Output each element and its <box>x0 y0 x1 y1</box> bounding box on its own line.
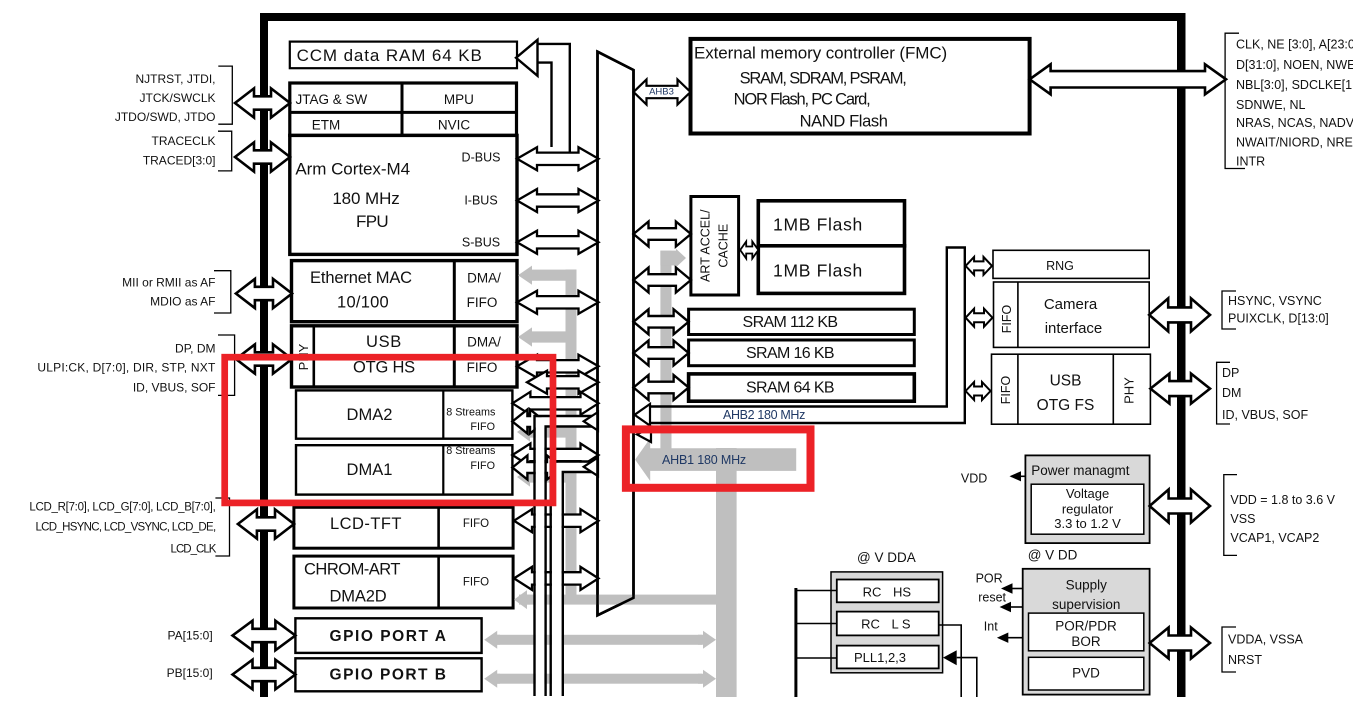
wire clock left rail <box>794 588 797 697</box>
svg-text:reset: reset <box>978 591 1006 605</box>
arrow USB OTG FS pins <box>1150 374 1210 404</box>
svg-text:CACHE: CACHE <box>717 224 731 268</box>
wire into PLL <box>957 658 977 697</box>
block POR/PDR BOR <box>1029 613 1144 651</box>
arrow VDD supply pins <box>1150 490 1210 523</box>
wire DMA2 peripheral bus channel down <box>536 417 598 696</box>
wire DMA1 peripheral bus channel down <box>552 463 598 696</box>
svg-text:JTAG & SW: JTAG & SW <box>296 92 368 107</box>
arrow DMA2 memory port stub <box>512 410 545 434</box>
svg-text:CLK, NE [3:0], A[23:0]: CLK, NE [3:0], A[23:0] <box>1236 38 1353 52</box>
svg-text:External memory controller (FM: External memory controller (FMC) <box>694 43 947 62</box>
svg-text:MII or RMII as AF: MII or RMII as AF <box>122 275 215 289</box>
wire VDD into power management <box>1011 475 1025 477</box>
wire AHB2 bus channel <box>648 248 965 424</box>
block JTAG & SW / MPU / ETM / NVIC <box>290 83 517 135</box>
svg-text:PHY: PHY <box>1122 377 1137 404</box>
svg-text:VDD = 1.8 to 3.6 V: VDD = 1.8 to 3.6 V <box>1230 493 1335 507</box>
grey bus bar GPIO PORT A row <box>496 635 702 645</box>
arrow LCD pins <box>238 509 294 538</box>
wire CCM data RAM to D-BUS <box>516 40 538 76</box>
svg-text:Power managmt: Power managmt <box>1031 463 1130 478</box>
svg-text:AHB2 180 MHz: AHB2 180 MHz <box>723 408 805 422</box>
arrow bus matrix to SRAM 64 KB <box>634 375 689 400</box>
svg-text:S-BUS: S-BUS <box>462 235 500 249</box>
svg-text:LCD_R[7:0], LCD_G[7:0], LCD_B[: LCD_R[7:0], LCD_G[7:0], LCD_B[7:0], <box>29 502 215 514</box>
grey bus arrow into Ethernet DMA/FIFO <box>518 266 577 285</box>
svg-text:PB[15:0]: PB[15:0] <box>167 666 213 680</box>
arrow GPIO PORT B pins <box>233 660 296 690</box>
block CCM data RAM 64 KB <box>290 42 517 69</box>
svg-text:USB: USB <box>1050 372 1082 389</box>
svg-text:PLL1,2,3: PLL1,2,3 <box>854 650 906 665</box>
wire AHB1 channel arrowhead <box>637 427 651 442</box>
svg-text:JTCK/SWCLK: JTCK/SWCLK <box>139 91 215 105</box>
block GPIO PORT A <box>295 618 481 653</box>
arrow Ethernet to bus matrix <box>517 291 599 314</box>
svg-text:PVD: PVD <box>1072 666 1100 681</box>
block SRAM 112 KB <box>689 309 915 334</box>
svg-text:10/100: 10/100 <box>337 293 389 311</box>
svg-text:3.3 to 1.2 V: 3.3 to 1.2 V <box>1054 516 1121 531</box>
arrow bus matrix to ART accelerator upper <box>634 222 691 247</box>
arrow JTAG pins <box>235 88 290 117</box>
svg-text:OTG HS: OTG HS <box>353 359 415 377</box>
block ART ACCEL / CACHE <box>691 197 739 296</box>
svg-text:NOR Flash, PC Card,: NOR Flash, PC Card, <box>734 91 870 109</box>
svg-text:VDD: VDD <box>961 471 987 485</box>
arrow CHROM-ART FIFO to bus matrix <box>514 567 599 590</box>
bus matrix <box>598 52 634 616</box>
block 1MB Flash upper <box>758 201 904 246</box>
svg-text:MPU: MPU <box>444 92 474 107</box>
block USB OTG HS with PHY and DMA/FIFO <box>292 326 518 387</box>
svg-text:VDDA, VSSA: VDDA, VSSA <box>1228 633 1304 647</box>
svg-text:CHROM-ART: CHROM-ART <box>304 561 400 579</box>
arrow Camera interface pins <box>1149 298 1210 331</box>
grey bus arrow into USB OTG HS DMA/FIFO <box>518 327 577 346</box>
arrow D-BUS to bus matrix <box>517 147 599 170</box>
svg-text:regulator: regulator <box>1062 502 1114 517</box>
frame right border wire <box>1177 13 1186 697</box>
frame top border wire <box>260 13 1185 21</box>
arrow LCD-TFT FIFO to bus matrix <box>514 509 599 532</box>
svg-text:8 Streams: 8 Streams <box>446 445 496 457</box>
svg-text:NRAS, NCAS, NADV: NRAS, NCAS, NADV <box>1236 116 1353 130</box>
svg-text:Voltage: Voltage <box>1066 486 1109 501</box>
svg-text:DMA/: DMA/ <box>467 271 501 286</box>
svg-text:@ V DD: @ V DD <box>1028 548 1078 563</box>
block PVD <box>1029 657 1144 690</box>
svg-text:ETM: ETM <box>312 117 341 132</box>
arrow AHB2 to RNG <box>966 257 992 275</box>
arrow USB ULPI pins <box>236 344 292 373</box>
block DMA2 8 Streams FIFO <box>296 390 512 438</box>
arrow USB HS to bus matrix lower <box>527 371 599 394</box>
svg-text:FIFO: FIFO <box>467 360 498 375</box>
svg-text:DMA1: DMA1 <box>346 461 392 479</box>
svg-text:FIFO: FIFO <box>467 295 498 310</box>
svg-text:D[31:0], NOEN, NWE: D[31:0], NOEN, NWE <box>1236 58 1353 72</box>
svg-text:FIFO: FIFO <box>463 518 489 530</box>
svg-text:1MB Flash: 1MB Flash <box>773 261 863 281</box>
svg-text:1MB Flash: 1MB Flash <box>773 214 863 234</box>
svg-text:FIFO: FIFO <box>470 421 495 433</box>
grey AHB1 trunk down <box>716 448 737 697</box>
svg-text:LCD_HSYNC, LCD_VSYNC, LCD_DE,: LCD_HSYNC, LCD_VSYNC, LCD_DE, <box>35 522 216 534</box>
svg-text:RC: RC <box>863 585 882 600</box>
svg-text:interface: interface <box>1045 320 1103 337</box>
grey bus bar CHROM-ART DMA2D row <box>519 595 716 605</box>
svg-text:DMA2D: DMA2D <box>330 588 387 606</box>
grey bus trunk from Ethernet/USB DMA down middle <box>566 270 577 600</box>
block SRAM 16 KB <box>689 340 915 366</box>
svg-text:@ V DDA: @ V DDA <box>857 550 916 565</box>
arrow TRACE pins <box>235 142 290 171</box>
svg-text:DP, DM: DP, DM <box>175 341 215 355</box>
wire Int output <box>1006 637 1023 639</box>
arrow I-BUS to bus matrix <box>517 189 599 212</box>
block Arm Cortex-M4 core <box>290 135 517 254</box>
block CHROM-ART DMA2D with FIFO <box>294 556 513 608</box>
svg-text:D-BUS: D-BUS <box>462 151 501 165</box>
svg-text:DMA/: DMA/ <box>467 335 501 350</box>
block Camera interface with FIFO <box>994 282 1150 347</box>
svg-text:RC: RC <box>861 617 880 632</box>
svg-text:SRAM 16 KB: SRAM 16 KB <box>746 345 834 362</box>
svg-text:PA[15:0]: PA[15:0] <box>168 629 213 643</box>
wire RC LS output down <box>939 625 962 697</box>
block DMA1 8 Streams FIFO <box>296 445 512 494</box>
svg-text:FIFO: FIFO <box>999 375 1013 404</box>
svg-text:DP: DP <box>1222 366 1239 380</box>
svg-text:Supply: Supply <box>1066 578 1108 593</box>
grey AHB1 bus arrow <box>635 438 796 481</box>
arrow DMA1 to bus matrix <box>512 444 598 467</box>
block LCD-TFT with FIFO <box>294 507 513 548</box>
svg-text:DMA2: DMA2 <box>346 406 392 424</box>
svg-text:NBL[3:0], SDCLKE[1:0]: NBL[3:0], SDCLKE[1:0] <box>1236 78 1353 92</box>
bus matrix outline restroke <box>598 52 634 616</box>
arrow bus matrix to ART accelerator lower <box>634 268 691 293</box>
svg-text:FIFO: FIFO <box>463 577 489 589</box>
svg-text:ID, VBUS, SOF: ID, VBUS, SOF <box>133 381 216 395</box>
arrow bus matrix to SRAM 16 KB <box>634 341 689 366</box>
svg-text:VCAP1, VCAP2: VCAP1, VCAP2 <box>1230 531 1319 545</box>
svg-text:Int: Int <box>984 620 998 634</box>
svg-text:TRACECLK: TRACECLK <box>151 134 215 148</box>
svg-text:L S: L S <box>891 617 910 632</box>
svg-text:Camera: Camera <box>1044 296 1098 313</box>
svg-text:USB: USB <box>366 333 402 351</box>
svg-text:NWAIT/NIORD, NREG: NWAIT/NIORD, NREG <box>1236 136 1353 150</box>
arrow VDDA supply pins <box>1150 628 1210 659</box>
block 1MB Flash lower <box>758 246 904 294</box>
arrow DMA2 to bus matrix <box>512 392 598 415</box>
svg-text:JTDO/SWD, JTDO: JTDO/SWD, JTDO <box>115 110 216 124</box>
svg-text:FIFO: FIFO <box>1000 304 1014 333</box>
grey bus bar GPIO PORT B row <box>496 674 702 684</box>
svg-text:OTG FS: OTG FS <box>1037 397 1095 414</box>
svg-text:FIFO: FIFO <box>470 460 495 472</box>
block GPIO PORT B <box>295 658 481 691</box>
svg-text:INTR: INTR <box>1236 154 1265 168</box>
arrow S-BUS to bus matrix <box>517 231 599 254</box>
svg-text:SRAM, SDRAM, PSRAM,: SRAM, SDRAM, PSRAM, <box>740 69 907 87</box>
svg-text:POR: POR <box>976 572 1003 586</box>
svg-text:SRAM 64 KB: SRAM 64 KB <box>746 380 834 397</box>
block Supply supervision <box>1023 569 1150 695</box>
svg-text:POR/PDR: POR/PDR <box>1055 619 1117 634</box>
svg-text:LCD-TFT: LCD-TFT <box>330 515 402 533</box>
svg-text:HS: HS <box>893 585 911 600</box>
svg-text:8 Streams: 8 Streams <box>446 407 496 419</box>
wire POR output <box>1010 588 1023 590</box>
svg-text:NAND Flash: NAND Flash <box>800 113 888 131</box>
arrow USB HS to bus matrix upper <box>517 355 599 378</box>
svg-text:ART ACCEL/: ART ACCEL/ <box>699 209 713 282</box>
svg-text:SDNWE, NL: SDNWE, NL <box>1236 98 1306 112</box>
svg-text:SRAM 112 KB: SRAM 112 KB <box>743 314 838 331</box>
svg-text:VSS: VSS <box>1230 512 1255 526</box>
svg-text:Ethernet MAC: Ethernet MAC <box>310 269 412 287</box>
svg-text:PUIXCLK, D[13:0]: PUIXCLK, D[13:0] <box>1228 312 1329 326</box>
block USB OTG FS with FIFO and PHY <box>992 354 1151 424</box>
svg-text:supervision: supervision <box>1052 597 1120 612</box>
svg-text:GPIO PORT A: GPIO PORT A <box>330 628 448 645</box>
svg-text:LCD_CLK: LCD_CLK <box>171 543 217 555</box>
block clock RC HS / RC LS / PLL at V DDA <box>831 572 943 673</box>
svg-text:NRST: NRST <box>1228 653 1262 667</box>
svg-text:NJTRST, JTDI,: NJTRST, JTDI, <box>136 72 216 86</box>
block External memory controller FMC <box>691 39 1030 134</box>
svg-text:TRACED[3:0]: TRACED[3:0] <box>143 153 216 167</box>
arrow ART accelerator to Flash <box>740 242 758 259</box>
svg-text:BOR: BOR <box>1071 634 1101 649</box>
arrow FMC to external pins <box>1030 64 1226 94</box>
frame left border wire <box>260 13 268 697</box>
arrow AHB2 to USB FS FIFO <box>966 382 991 400</box>
svg-text:RNG: RNG <box>1046 259 1074 273</box>
grey bus trunk beside bus matrix to ART accelerator <box>660 251 671 470</box>
svg-text:ULPI:CK, D[7:0], DIR, STP, NXT: ULPI:CK, D[7:0], DIR, STP, NXT <box>37 360 216 374</box>
svg-text:MDIO as AF: MDIO as AF <box>150 294 215 308</box>
svg-text:I-BUS: I-BUS <box>464 194 497 208</box>
svg-text:180 MHz: 180 MHz <box>332 189 399 208</box>
svg-text:AHB3: AHB3 <box>649 87 674 98</box>
block Power managmt with voltage regulator <box>1025 455 1149 543</box>
svg-text:GPIO PORT B: GPIO PORT B <box>330 667 448 684</box>
svg-text:Arm Cortex-M4: Arm Cortex-M4 <box>295 160 410 179</box>
block RNG <box>993 250 1149 278</box>
grey bus arrow into ART accelerator <box>660 249 686 267</box>
red highlight rectangle AHB1 bus <box>626 429 811 487</box>
grey bus arrow into DMA2 FIFO <box>517 422 577 441</box>
arrow bus matrix to SRAM 112 KB <box>634 309 689 334</box>
svg-text:ID, VBUS, SOF: ID, VBUS, SOF <box>1222 408 1308 422</box>
grey bus arrow into DMA1 FIFO <box>517 467 577 486</box>
svg-text:DM: DM <box>1222 386 1241 400</box>
red highlight rectangle DMA region <box>225 357 553 503</box>
arrow DMA1 memory port stub <box>512 456 562 480</box>
svg-text:AHB1 180 MHz: AHB1 180 MHz <box>662 453 746 467</box>
arrow GPIO PORT A pins <box>233 621 296 651</box>
arrow AHB3 bus to FMC <box>634 80 691 105</box>
svg-text:CCM data RAM 64 KB: CCM data RAM 64 KB <box>297 46 483 65</box>
arrow AHB2 to Camera FIFO <box>966 309 993 327</box>
svg-text:FPU: FPU <box>356 212 388 231</box>
arrow Ethernet MII pins <box>236 279 292 308</box>
wire reset output <box>1008 606 1023 608</box>
block Ethernet MAC 10/100 with DMA/FIFO <box>292 261 518 322</box>
svg-text:NVIC: NVIC <box>438 117 471 132</box>
svg-text:HSYNC, VSYNC: HSYNC, VSYNC <box>1228 294 1322 308</box>
block SRAM 64 KB <box>689 374 915 401</box>
